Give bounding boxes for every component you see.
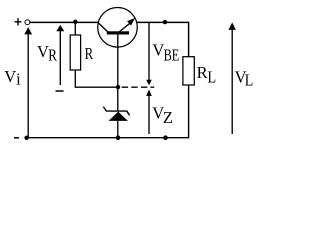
svg-text:BE: BE (164, 45, 180, 64)
svg-text:L: L (207, 68, 216, 87)
svg-text:V: V (152, 41, 164, 60)
svg-text:Z: Z (163, 108, 173, 127)
svg-text:i: i (16, 70, 21, 89)
svg-text:V: V (37, 42, 49, 61)
svg-text:R: R (48, 45, 57, 64)
svg-text:R: R (85, 44, 94, 63)
svg-text:V: V (4, 67, 16, 86)
svg-text:L: L (245, 70, 254, 89)
svg-text:R: R (197, 63, 208, 82)
